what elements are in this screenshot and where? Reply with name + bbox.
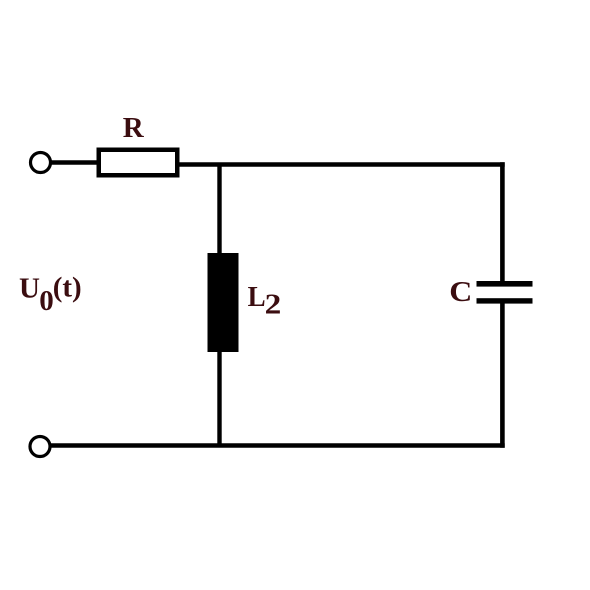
wire (right rail upper, top corner to capacitor) (500, 162, 505, 284)
svg-text:U: U (19, 273, 40, 305)
svg-text:R: R (123, 112, 145, 144)
node A (top junction of inductor branch) (217, 163, 221, 258)
capacitor C top plate (477, 281, 533, 287)
svg-text:0: 0 (39, 285, 54, 317)
svg-text:(t): (t) (53, 272, 82, 304)
svg-text:L: L (248, 281, 266, 313)
wire (top terminal to resistor) (51, 160, 99, 164)
label U0(t) source voltage (19, 272, 82, 318)
svg-text:C: C (449, 275, 472, 307)
terminal (top input) (31, 153, 51, 173)
wire (inductor bottom leg) (217, 348, 221, 446)
wire (bottom rail) (50, 443, 505, 448)
label L2 (248, 281, 282, 320)
wire (right rail lower, capacitor to bottom corner) (500, 300, 505, 448)
resistor R (99, 150, 178, 176)
terminal (bottom input) (30, 437, 50, 457)
capacitor C bottom plate (477, 298, 533, 303)
inductor L2 body (208, 253, 239, 352)
wire (resistor to top-right corner rail) (177, 162, 505, 167)
svg-text:2: 2 (265, 288, 282, 320)
